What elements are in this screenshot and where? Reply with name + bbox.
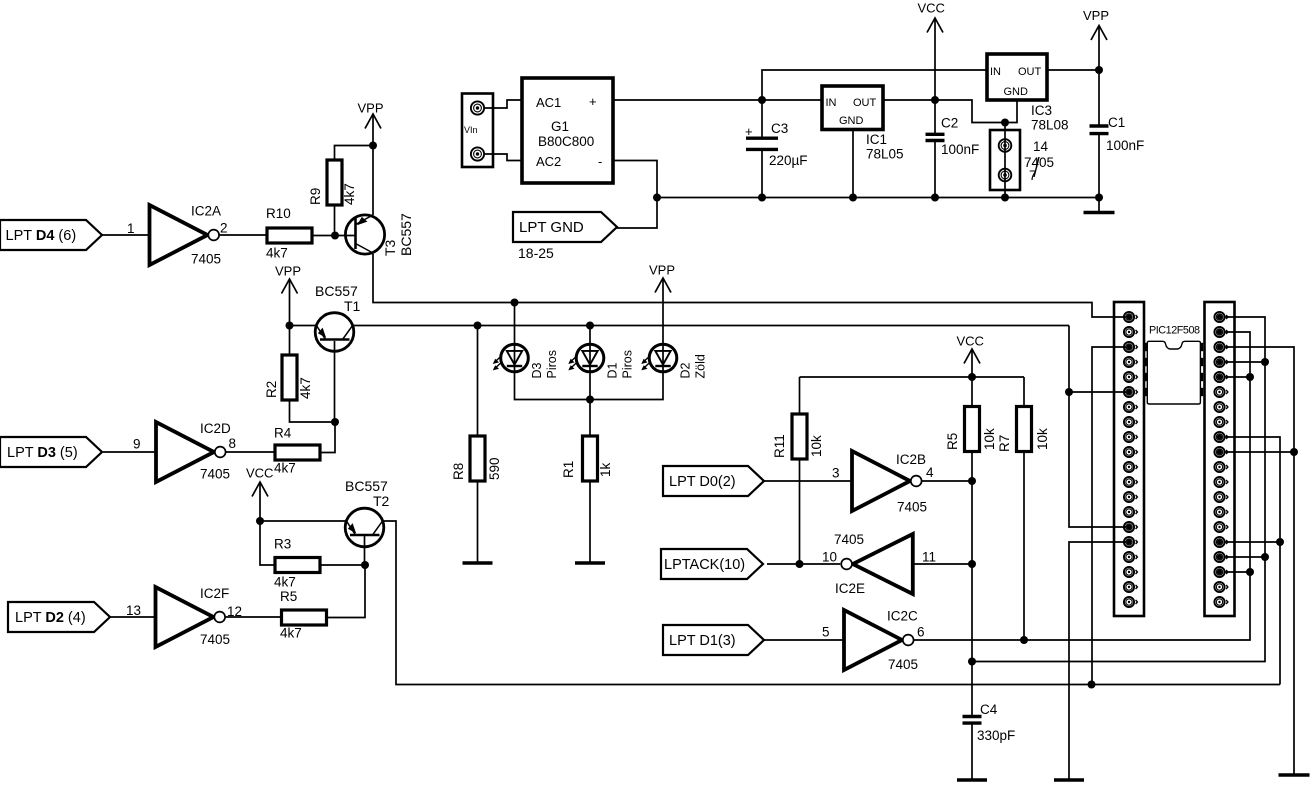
label 7405 IC2A: [191, 252, 221, 267]
wire D0 flag to IC2B: [764, 480, 852, 482]
resistor R10: [267, 228, 312, 243]
svg-text:78L05: 78L05: [866, 147, 904, 162]
wire JP1 pin 3 down: [1092, 347, 1126, 685]
label IC3: [1031, 103, 1052, 118]
svg-text:7405: 7405: [888, 657, 918, 672]
wire IC2F out to R5: [225, 616, 281, 618]
wire VPP stem to D2: [662, 278, 664, 344]
wire T1 collector rail: [354, 325, 1069, 327]
svg-text:8: 8: [229, 436, 237, 451]
pin number 2: [220, 221, 228, 236]
junction JP2 pin17: [1261, 553, 1269, 561]
svg-text:R7: R7: [997, 435, 1012, 452]
JP1 pin 3: [1124, 342, 1138, 352]
wire R4 to T1 base net: [320, 422, 335, 453]
label 7405 IC2C: [888, 657, 918, 672]
wire VCC stem T2: [259, 482, 261, 521]
svg-text:VPP: VPP: [358, 101, 384, 116]
bridge rectifier G1: [522, 78, 613, 183]
G1 pin label AC1: [536, 95, 561, 110]
svg-text:BC557: BC557: [315, 283, 358, 299]
svg-text:IC2F: IC2F: [200, 586, 229, 601]
junction IC1 GND / rail: [849, 194, 857, 202]
label R4: [274, 426, 292, 441]
LED D2 Zold: [641, 344, 707, 379]
value 4k7 R4: [274, 461, 296, 476]
value 4k7 R3: [274, 575, 296, 590]
label BC557 T3: [398, 213, 414, 256]
resistor R9: [327, 160, 342, 205]
inverter IC2F: [156, 587, 226, 647]
label BC557 T1: [315, 283, 358, 299]
wire JP1 pin 6 link: [1069, 391, 1126, 393]
IC3 pin label IN: [990, 66, 1001, 78]
svg-text:LPT D3 (5): LPT D3 (5): [7, 445, 78, 461]
junction D3 anode feed: [511, 299, 519, 307]
JP2 pin 1: [1214, 312, 1228, 322]
capacitor C1: [1090, 115, 1145, 153]
power symbol VCC R6: [957, 334, 984, 364]
junction net crossing x972 y661: [968, 658, 976, 666]
svg-text:R5: R5: [945, 433, 960, 450]
junction T2 base / R3 / R5: [361, 561, 369, 569]
svg-text:4k7: 4k7: [274, 575, 296, 590]
capacitor C2: [926, 116, 980, 158]
junction JP2 pin4: [1261, 358, 1269, 366]
flag LPT D4 (6): [0, 220, 102, 250]
wire C2 top lead: [934, 100, 936, 134]
JP2 pin 8: [1214, 417, 1228, 427]
junction T1 base / R2 / R4: [331, 418, 339, 426]
JP2 pin 6: [1214, 387, 1228, 397]
label 7405 IC2B: [897, 500, 927, 515]
wire C4 bottom lead: [971, 723, 973, 779]
JP2 pin 5: [1214, 372, 1228, 382]
IC3 pin label OUT: [1018, 66, 1042, 78]
svg-text:100nF: 100nF: [1106, 138, 1144, 153]
svg-text:78L08: 78L08: [1031, 118, 1069, 133]
LED D1 Piros: [568, 344, 634, 379]
svg-text:100nF: 100nF: [941, 142, 979, 157]
resistor R11: [792, 414, 807, 459]
power symbol VPP T1: [275, 264, 301, 294]
JP2 pin 15: [1214, 522, 1228, 532]
svg-text:D2: D2: [679, 362, 693, 378]
wire R1 bottom lead: [589, 481, 591, 562]
resistor R2: [282, 355, 297, 400]
JP1 pin 10: [1124, 447, 1138, 457]
JP1 pin 16: [1124, 537, 1138, 547]
junction T3 base / R9: [331, 232, 339, 240]
label BC557 T2: [345, 478, 388, 494]
junction IC2B out / R6: [968, 477, 976, 485]
wire VCC to T2 emitter: [260, 520, 346, 522]
wire D1 flag to IC2C: [764, 639, 844, 641]
wire IC2B out: [922, 480, 973, 482]
value 78L08: [1031, 118, 1069, 133]
wire VPP stem T1: [289, 279, 291, 326]
svg-text:R10: R10: [266, 206, 291, 221]
svg-text:330pF: 330pF: [977, 728, 1015, 743]
JP2 pin 12: [1214, 477, 1228, 487]
flag LPT D0(2): [663, 466, 764, 496]
wire R8 bottom lead: [477, 481, 479, 562]
junction 7405 GND / rail: [1001, 194, 1009, 202]
flag LPT D1(3): [663, 625, 764, 655]
svg-text:R3: R3: [274, 537, 291, 552]
label R8: [451, 463, 466, 480]
junction GND rail left: [653, 194, 661, 202]
label T1: [344, 298, 361, 314]
svg-text:5: 5: [822, 625, 830, 640]
transistor T2 BC557: [345, 508, 384, 547]
wire R7 top lead: [1023, 377, 1025, 407]
voltage regulator IC1 78L05: [822, 86, 883, 130]
flag LPT GND: [513, 212, 617, 242]
wire IC2D out to R4: [226, 451, 276, 453]
svg-text:IC2D: IC2D: [200, 421, 231, 436]
inverter IC2A: [150, 205, 220, 265]
svg-text:C4: C4: [980, 702, 998, 717]
svg-text:7405: 7405: [200, 467, 230, 482]
svg-text:D3: D3: [530, 362, 544, 378]
G1 pin label -: [598, 154, 602, 169]
svg-text:IN: IN: [826, 97, 837, 109]
svg-text:R2: R2: [264, 381, 279, 398]
svg-text:GND: GND: [839, 115, 864, 127]
JP1 pin 4: [1124, 357, 1138, 367]
wire R1 top lead: [589, 400, 591, 437]
wire D4 flag to IC2A: [102, 234, 150, 236]
junction pin3-left net: [1088, 681, 1096, 689]
wire JP2 pin 17 link: [1224, 556, 1266, 558]
flag LPT D3 (5): [0, 437, 102, 467]
IC1 pin label OUT: [853, 97, 877, 109]
wire JP2 pin 3 to ground: [1224, 347, 1295, 774]
value 78L05: [866, 147, 904, 162]
C3 polarity +: [745, 124, 753, 139]
JP2 pin 9: [1214, 432, 1228, 442]
label 7405 power: [1024, 155, 1054, 170]
ground symbol JP1 pin16: [1054, 778, 1084, 782]
resistor R4: [275, 445, 320, 460]
JP1 pin 15: [1124, 522, 1138, 532]
svg-text:R4: R4: [274, 426, 292, 441]
JP2 pin 10: [1214, 447, 1228, 457]
svg-text:4: 4: [926, 465, 934, 480]
wire C3 top lead: [761, 100, 763, 138]
label IC1: [866, 132, 887, 147]
wire JP2 pin 9 chain: [1224, 437, 1281, 685]
pin number 13: [126, 603, 141, 618]
flag LPTACK(10): [661, 549, 763, 579]
resistor R5: [282, 610, 327, 625]
svg-text:10k: 10k: [982, 428, 997, 450]
wire IC2B net to pin17 chain: [972, 317, 1265, 662]
svg-text:10k: 10k: [1035, 428, 1050, 450]
label G1: [551, 119, 569, 134]
svg-text:IC1: IC1: [866, 132, 887, 147]
pin number 8: [229, 436, 237, 451]
junction R8 feed: [474, 322, 482, 330]
wire C2 bottom lead: [934, 141, 936, 198]
svg-text:R1: R1: [561, 461, 576, 478]
svg-text:OUT: OUT: [853, 97, 877, 109]
svg-text:BC557: BC557: [398, 213, 414, 256]
JP2 pin 11: [1214, 462, 1228, 472]
svg-text:3: 3: [832, 466, 840, 481]
wire R6 bottom / output net: [971, 452, 973, 717]
svg-text:R11: R11: [772, 434, 787, 458]
wire R11 bottom lead: [799, 459, 801, 564]
power symbol VPP top right: [1083, 8, 1109, 40]
wire R9 top to VPP: [335, 146, 374, 161]
JP2 pin 20: [1214, 597, 1228, 607]
svg-text:4k7: 4k7: [342, 183, 357, 205]
inverter IC2E: [841, 534, 913, 594]
wire JP2 pin 10 link: [1224, 451, 1295, 453]
JP2 pin 2: [1214, 327, 1228, 337]
wire IC2E in: [913, 563, 972, 565]
power symbol VPP T3: [358, 101, 384, 129]
svg-text:PIC12F508: PIC12F508: [1149, 325, 1200, 337]
svg-text:220µF: 220µF: [769, 153, 808, 168]
wire R6 top lead: [971, 377, 973, 407]
JP1 pin 18: [1124, 567, 1138, 577]
svg-text:4k7: 4k7: [298, 377, 313, 399]
svg-text:IC2A: IC2A: [191, 204, 221, 219]
junction VPP / R2 / T1 emitter: [286, 322, 294, 330]
resistor R1: [583, 436, 598, 481]
wire T2 base lead: [364, 536, 366, 565]
socket header JP1 left: [1114, 302, 1144, 616]
JP1 pin 12: [1124, 477, 1138, 487]
JP2 pin 16: [1214, 537, 1228, 547]
svg-text:+: +: [745, 124, 753, 139]
label R5: [280, 589, 297, 604]
svg-text:D1: D1: [606, 362, 620, 378]
svg-text:9: 9: [133, 437, 141, 452]
pin number 9: [133, 437, 141, 452]
svg-text:7405: 7405: [200, 632, 230, 647]
label R9: [308, 188, 323, 205]
svg-text:R5: R5: [280, 589, 297, 604]
JP1 pin 13: [1124, 492, 1138, 502]
connector X1 terminal block Vin: [462, 94, 493, 168]
JP1 pin 5: [1124, 372, 1138, 382]
wire R7 bottom lead: [1023, 452, 1025, 641]
pin number 5: [822, 625, 830, 640]
svg-text:R8: R8: [451, 463, 466, 480]
wire IC2C out long: [914, 332, 1251, 640]
wire VCC arrow stem: [934, 18, 936, 100]
transistor T3 BC557: [345, 215, 384, 254]
wire rail to ground symbol: [1098, 198, 1100, 212]
svg-text:4k7: 4k7: [266, 246, 288, 261]
svg-text:4k7: 4k7: [274, 461, 296, 476]
terminal pin Vin-2: [471, 147, 484, 160]
JP2 pin 4: [1214, 357, 1228, 367]
svg-text:VCC: VCC: [957, 334, 984, 349]
label 18-25: [518, 245, 554, 261]
terminal pin Vin-1: [471, 101, 484, 114]
pin number 7: [1029, 168, 1037, 183]
svg-text:4k7: 4k7: [280, 626, 302, 641]
U1 right pin stub 1: [1201, 343, 1204, 351]
svg-text:OUT: OUT: [1018, 66, 1042, 78]
pin number 14: [1033, 139, 1049, 154]
svg-text:1: 1: [127, 221, 135, 236]
inverter IC2D: [156, 422, 226, 482]
wire R8 top lead: [477, 326, 479, 437]
wire AC2 terminal to G1: [485, 154, 522, 161]
pin number 4: [926, 465, 934, 480]
resistor R8: [470, 436, 485, 481]
voltage regulator IC3 78L08: [987, 54, 1047, 100]
JP2 pin 3: [1214, 342, 1228, 352]
wire G1 - output: [613, 161, 657, 229]
svg-text:LPT GND: LPT GND: [519, 219, 584, 236]
junction VCC / R3 / T2 emitter: [256, 517, 264, 525]
IC3 pin label GND: [1004, 86, 1029, 98]
svg-text:VPP: VPP: [275, 264, 301, 279]
G1 pin label AC2: [536, 154, 561, 169]
pin number 1: [127, 221, 135, 236]
junction VPP at C1: [1095, 66, 1103, 74]
wire R5 to T2 base net: [327, 565, 366, 618]
svg-text:G1: G1: [551, 119, 569, 134]
value 10k R11: [809, 435, 824, 457]
pin number 10: [822, 550, 837, 565]
inverter IC2B: [852, 451, 922, 511]
label R11: [772, 434, 787, 458]
JP1 pin 19: [1124, 582, 1138, 592]
svg-text:IC2C: IC2C: [887, 609, 918, 624]
svg-text:Zöld: Zöld: [694, 354, 708, 378]
pin number 3: [832, 466, 840, 481]
value B80C800: [538, 134, 594, 149]
svg-text:IN: IN: [990, 66, 1001, 78]
JP1 pin 14: [1124, 507, 1138, 517]
capacitor C3: [746, 121, 808, 168]
JP1 pin 17: [1124, 552, 1138, 562]
IC1 pin label GND: [839, 115, 864, 127]
wire AC1 terminal to G1: [485, 100, 522, 108]
power symbol VCC T2: [246, 466, 273, 497]
wire D3 flag to IC2D: [103, 451, 156, 453]
pin number 6: [917, 625, 925, 640]
value 1k R1: [598, 462, 613, 477]
junction JP2 pin16: [1276, 538, 1284, 546]
svg-text:+: +: [589, 94, 597, 109]
junction JP2 pin5: [1246, 373, 1254, 381]
U1 left pin stub 4: [1144, 388, 1147, 396]
svg-text:7405: 7405: [191, 252, 221, 267]
wire C3 bottom lead: [761, 150, 763, 198]
resistor R3: [275, 558, 320, 573]
leader line 7405: [1034, 157, 1039, 177]
ground symbol R1: [575, 561, 605, 565]
junction IC2C out / R7: [1020, 636, 1028, 644]
label IC2C: [887, 609, 918, 624]
wire C1 bottom lead: [1098, 134, 1100, 198]
label R2: [264, 381, 279, 398]
junction VCC at C2: [931, 96, 939, 104]
wire JP2 pin 4 link: [1224, 361, 1266, 363]
G1 pin label +: [589, 94, 597, 109]
wire R3 left lead: [260, 521, 275, 565]
wire JP1 pin 16 to ground: [1069, 542, 1126, 779]
svg-text:VIn: VIn: [464, 125, 478, 135]
wire R10 to T3 base: [312, 235, 356, 237]
wire D3 anode lead: [514, 303, 516, 344]
svg-text:10k: 10k: [809, 435, 824, 457]
JP1 pin 11: [1124, 462, 1138, 472]
inverter IC2C: [844, 610, 914, 670]
wire IC3 GND lead: [1005, 100, 1017, 123]
JP1 pin 6: [1124, 387, 1138, 397]
pin number 11: [922, 550, 936, 565]
JP1 pin 9: [1124, 432, 1138, 442]
svg-text:T2: T2: [373, 493, 390, 509]
junction LPTACK / R11: [796, 560, 804, 568]
wire G1 + output to IC1 IN: [613, 99, 822, 101]
label 7405 IC2E: [834, 532, 864, 547]
svg-text:14: 14: [1033, 139, 1049, 154]
svg-text:LPT D4 (6): LPT D4 (6): [6, 228, 77, 244]
label PIC12F508: [1149, 325, 1200, 337]
JP2 pin 13: [1214, 492, 1228, 502]
svg-text:BC557: BC557: [345, 478, 388, 494]
svg-text:IC2E: IC2E: [835, 581, 865, 596]
wire T1 base lead: [334, 341, 336, 422]
JP1 pin 1: [1124, 312, 1138, 322]
wire VPP arrow stem: [1098, 26, 1100, 71]
wire T2 collector long: [384, 521, 1280, 685]
socket header JP2 right: [1205, 302, 1235, 616]
value 4k7 R2: [298, 377, 313, 399]
svg-text:LPT D2 (4): LPT D2 (4): [15, 610, 86, 626]
JP2 pin 19: [1214, 582, 1228, 592]
IC1 pin label IN: [826, 97, 837, 109]
label 7405 IC2F: [200, 632, 230, 647]
U1 left pin stub 2: [1144, 358, 1147, 366]
junction C2 / ground rail: [931, 194, 939, 202]
wire JP2 pin 16 link: [1224, 541, 1281, 543]
label R7: [997, 435, 1012, 452]
svg-text:7405: 7405: [834, 532, 864, 547]
junction C1 / ground rail: [1095, 194, 1103, 202]
ground symbol R8: [463, 561, 493, 565]
svg-text:VPP: VPP: [1083, 8, 1109, 23]
value 4k7 R9: [342, 183, 357, 205]
U1 left pin stub 3: [1144, 373, 1147, 381]
junction JP2 pin18: [1246, 568, 1254, 576]
U1 right pin stub 3: [1201, 373, 1204, 381]
wire LPTACK to IC2E out: [767, 563, 840, 565]
wire VCC stem R6: [971, 349, 973, 377]
JP1 pin 7: [1124, 402, 1138, 412]
label R6: [945, 433, 960, 450]
wire IC3 OUT to VPP: [1047, 69, 1099, 71]
wire T1 rail to JP1 pins 6/15: [1069, 326, 1126, 528]
svg-text:VCC: VCC: [246, 466, 273, 481]
wire IC2A out to R10: [219, 234, 267, 236]
value 10k R7: [1035, 428, 1050, 450]
U1 right pin stub 2: [1201, 358, 1204, 366]
wire IC1 GND lead: [852, 130, 854, 198]
junction LED common / R1: [586, 396, 594, 404]
